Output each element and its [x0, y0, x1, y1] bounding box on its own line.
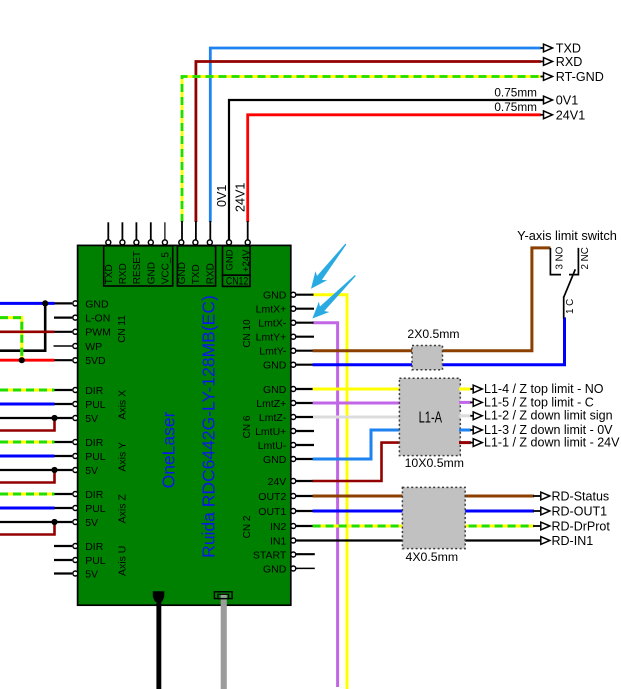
pin left PUL 13 — [73, 506, 78, 511]
pin right OUT2 14 — [291, 494, 296, 499]
pin left DIR 15 — [73, 544, 78, 549]
svg-text:0.75mm: 0.75mm — [494, 100, 537, 114]
node RXD arrow — [544, 58, 553, 66]
cable main black — [156, 598, 161, 689]
svg-text:CN 11: CN 11 — [117, 315, 128, 343]
wire DIR Z dashed green overlay — [0, 493, 55, 496]
wire L1-1 arrow lead — [470, 442, 473, 444]
pin left DIR 6 — [73, 388, 78, 393]
wire LmtY- stub — [297, 350, 314, 352]
wire OUT1 blue to RD-OUT1 — [313, 510, 534, 513]
pin left L-ON 2 — [73, 315, 78, 320]
wire stub top pin 1 — [107, 222, 109, 240]
node RD-DrProt arrow — [541, 522, 550, 530]
svg-text:LmtY-: LmtY- — [259, 346, 287, 358]
node 5V X junction — [51, 415, 57, 421]
wire net LmtX-GND yellow vertical to bottom — [313, 295, 347, 689]
pin top 8 — [207, 240, 212, 245]
svg-text:DIR: DIR — [85, 489, 104, 501]
pin right LmtZ+ 8 — [291, 401, 296, 406]
pin left 5V 11 — [73, 468, 78, 473]
svg-text:0.75mm: 0.75mm — [494, 85, 537, 99]
wire PUL Z black stub — [55, 507, 73, 509]
svg-text:24V: 24V — [268, 476, 287, 488]
wire 5V U stub — [54, 572, 72, 574]
svg-text:TXD: TXD — [191, 264, 202, 284]
svg-text:LmtZ-: LmtZ- — [259, 412, 287, 424]
wire IN2 arrow lead — [533, 525, 542, 527]
svg-text:START: START — [253, 549, 287, 561]
wire 5V Y dark red branch — [0, 470, 55, 483]
IC U1 Ruida controller board body — [78, 245, 291, 605]
svg-text:Axis Y: Axis Y — [116, 442, 128, 472]
svg-text:PUL: PUL — [85, 503, 106, 515]
wire DIR Y dashed yellow base — [0, 441, 55, 444]
wire PUL U stub — [54, 559, 72, 561]
switch SW1 lever — [564, 269, 576, 297]
svg-text:2 NC: 2 NC — [580, 247, 591, 269]
node L1-4 arrow — [473, 385, 482, 393]
node TXD arrow — [544, 44, 553, 52]
wire GND CN6 yellow to L1-A — [313, 388, 402, 391]
pin left 5V 8 — [73, 416, 78, 421]
wire GND CN10 stub — [297, 294, 314, 296]
wire net LmtX- violet vertical to bottom — [313, 323, 338, 687]
wire GND blue — [0, 302, 55, 305]
wire GND black branch — [0, 303, 45, 350]
wire RT-GND black stub — [181, 221, 183, 240]
wire OUT2 stub — [297, 495, 314, 497]
wire DIR Y black stub — [55, 441, 73, 443]
wire DIR X dashed green overlay — [0, 389, 55, 392]
wire IN1 stub black to RD-IN1 — [297, 539, 542, 541]
connector grey inner — [218, 594, 229, 598]
svg-text:GND: GND — [263, 563, 287, 575]
wire PWM dark red — [0, 330, 55, 333]
svg-text:LmtU-: LmtU- — [258, 440, 287, 452]
node 5VD junction — [19, 357, 25, 363]
wire L1-4 colored — [459, 388, 471, 391]
wire LmtZ+ stub — [297, 402, 314, 404]
callout arrow 1 shaft — [316, 244, 346, 282]
wire 5V X dark red branch — [0, 418, 55, 431]
pin top 3 — [134, 240, 139, 245]
node RD-OUT1 arrow — [541, 507, 550, 515]
wire L-ON black stub — [54, 317, 72, 319]
wire 5V X black — [0, 417, 72, 419]
svg-text:DIR: DIR — [85, 385, 104, 397]
wire L1-4 arrow lead — [470, 388, 473, 390]
svg-text:5V: 5V — [85, 568, 98, 580]
wire L1-1 colored — [459, 441, 471, 444]
wire OUT1 arrow lead — [533, 510, 542, 512]
wire L-ON dashed yellow base — [0, 318, 22, 361]
wire stub top pin 3 — [135, 222, 137, 240]
wire DIR X black stub — [55, 389, 73, 391]
svg-text:24V1: 24V1 — [556, 108, 585, 122]
svg-text:RD-OUT1: RD-OUT1 — [552, 505, 608, 519]
pin left PUL 10 — [73, 454, 78, 459]
svg-text:LmtU+: LmtU+ — [255, 426, 286, 438]
switch SW1 NC contact — [569, 248, 578, 275]
svg-text:0V1: 0V1 — [215, 185, 229, 207]
cable block L1-A — [399, 378, 460, 455]
svg-text:2X0.5mm: 2X0.5mm — [407, 327, 459, 341]
pin left WP 4 — [73, 344, 78, 349]
wire stub top pin 4 — [150, 222, 152, 240]
svg-text:TXD: TXD — [104, 264, 115, 284]
svg-text:PUL: PUL — [85, 399, 106, 411]
svg-text:LmtY+: LmtY+ — [256, 332, 287, 344]
svg-text:IN2: IN2 — [270, 521, 287, 533]
wire LmtY+ stub — [297, 336, 315, 338]
pin left DIR 12 — [73, 492, 78, 497]
pin top 5 — [162, 240, 167, 245]
wire RXD (dark red) — [196, 62, 541, 223]
pin left DIR 9 — [73, 440, 78, 445]
pin right IN2 16 — [291, 524, 296, 529]
svg-text:LmtX-: LmtX- — [258, 318, 287, 330]
node RD-IN1 arrow — [541, 537, 550, 545]
pin right GND 1 — [291, 292, 296, 297]
pin top 4 — [148, 240, 153, 245]
pin left 5V 17 — [73, 571, 78, 576]
svg-text:GND: GND — [263, 454, 287, 466]
svg-text:+24V: +24V — [241, 249, 252, 272]
wire TXD (azure) — [210, 48, 541, 222]
pin top 7 — [193, 240, 198, 245]
svg-text:Axis X: Axis X — [116, 390, 128, 420]
wire PUL Y blue — [0, 455, 55, 458]
node 0V1 arrow — [544, 96, 553, 104]
wire L1-3 colored — [459, 429, 471, 432]
wire 24V1 arrow lead — [541, 114, 545, 116]
svg-text:GND: GND — [177, 262, 188, 284]
pin right LmtU+ 10 — [291, 429, 296, 434]
wire TXD arrow lead — [541, 47, 545, 49]
wire L1-2 colored — [459, 414, 471, 417]
wire LmtY- brown to Y switch NO — [313, 248, 551, 351]
svg-text:3 NO: 3 NO — [554, 246, 565, 269]
wire 5V Y black — [0, 469, 72, 471]
wire PUL X blue — [0, 403, 55, 406]
pin right GND 12 — [291, 457, 296, 462]
pin top 1 — [106, 240, 111, 245]
wire L1-2 arrow lead — [470, 415, 473, 417]
cable block 2X0.5mm — [412, 346, 443, 370]
wire IN2 yellow base — [313, 525, 534, 528]
svg-text:DIR: DIR — [85, 541, 104, 553]
svg-text:LmtZ+: LmtZ+ — [256, 398, 286, 410]
wire PWM black stub — [55, 331, 73, 333]
wire WP stub — [54, 345, 73, 347]
svg-text:4X0.5mm: 4X0.5mm — [405, 550, 458, 564]
wire PUL X black stub — [55, 403, 73, 405]
svg-text:GND: GND — [263, 384, 287, 396]
pin left 5V 14 — [73, 520, 78, 525]
node 5V Y junction — [51, 467, 57, 473]
svg-text:PUL: PUL — [85, 555, 106, 567]
wire RT-GND arrow lead — [541, 76, 545, 78]
svg-text:PWM: PWM — [85, 327, 111, 339]
pin right LmtZ- 9 — [291, 415, 296, 420]
wire RT-GND green dashes — [182, 77, 541, 223]
svg-text:RD-Status: RD-Status — [552, 490, 610, 504]
wire DIR Z black stub — [55, 493, 73, 495]
svg-text:L1-5 / Z top limit - C: L1-5 / Z top limit - C — [484, 395, 594, 409]
wire stub top pin 2 — [121, 222, 123, 240]
pin right START 18 — [291, 552, 296, 557]
wire LmtU- stub — [297, 444, 315, 446]
svg-text:10X0.5mm: 10X0.5mm — [405, 456, 464, 470]
wire RXD arrow lead — [541, 61, 545, 63]
wire GND black stub — [55, 302, 73, 304]
wire IN2 stub — [297, 525, 314, 527]
wire GND CN6b stub — [297, 458, 314, 460]
pin top 9 — [227, 240, 232, 245]
connector box serial — [177, 246, 215, 286]
svg-text:WP: WP — [85, 341, 102, 353]
svg-text:RD-IN1: RD-IN1 — [552, 534, 594, 548]
pin right GND 19 — [291, 566, 296, 571]
wire GND CN10b stub — [297, 364, 314, 366]
svg-text:CN 2: CN 2 — [242, 515, 253, 538]
wire LmtZ+ violet to L1-A — [313, 402, 402, 405]
wire LmtZ- stub — [297, 416, 315, 418]
node L1-5 arrow — [473, 399, 482, 407]
pin right LmtU- 11 — [291, 443, 296, 448]
svg-text:RXD: RXD — [118, 263, 129, 284]
pin right GND 7 — [291, 387, 296, 392]
svg-text:GND: GND — [146, 262, 157, 284]
svg-text:L-ON: L-ON — [85, 313, 110, 325]
svg-text:0V1: 0V1 — [556, 94, 578, 108]
wire OUT2 brown to RD-Status — [313, 495, 534, 498]
svg-text:RXD: RXD — [205, 263, 216, 284]
svg-text:24V1: 24V1 — [233, 183, 247, 212]
wire 24V dark red from L1-A — [313, 443, 400, 481]
pin left 5VD 5 — [73, 358, 78, 363]
wire 24V stub — [297, 480, 314, 482]
wire DIR X dashed yellow base — [0, 389, 55, 392]
wire GND CN6 stub — [297, 388, 314, 390]
pin left PUL 16 — [73, 558, 78, 563]
wire L-ON dashed green overlay — [0, 318, 22, 361]
pin right GND 6 — [291, 362, 296, 367]
pin right OUT1 15 — [291, 509, 296, 514]
wire 5V Z dark red branch — [0, 522, 55, 535]
wire PUL Z blue — [0, 507, 55, 510]
wire GND CN2 stub — [296, 567, 315, 569]
svg-text:L1-2 / Z down limit sign: L1-2 / Z down limit sign — [484, 409, 613, 423]
wire PUL Y black stub — [55, 455, 73, 457]
svg-text:CN12: CN12 — [226, 275, 248, 287]
wire LmtZ- grey to L1-A — [313, 416, 402, 419]
wire 5V Z black — [0, 521, 72, 523]
pin top 10 — [245, 240, 250, 245]
svg-text:Axis U: Axis U — [116, 546, 128, 576]
svg-text:LmtX+: LmtX+ — [256, 304, 287, 316]
wire LmtX+ stub — [297, 308, 315, 310]
pin top 2 — [120, 240, 125, 245]
svg-text:Y-axis limit switch: Y-axis limit switch — [517, 228, 617, 243]
pin right LmtY- 5 — [291, 348, 296, 353]
wire LmtU+ stub — [297, 430, 315, 432]
wire RT-GND yellow base — [182, 77, 541, 223]
connector grey outer — [214, 592, 232, 599]
connector CN12 label box — [223, 275, 251, 286]
svg-text:GND: GND — [224, 249, 235, 270]
wire OUT2 arrow lead — [533, 495, 542, 497]
wire 5VD red — [0, 359, 55, 362]
svg-text:5VD: 5VD — [85, 355, 106, 367]
svg-text:CN 10: CN 10 — [242, 319, 253, 348]
svg-text:RT-GND: RT-GND — [556, 70, 604, 84]
svg-text:GND: GND — [263, 290, 287, 302]
wire START stub — [296, 553, 315, 555]
callout arrow 2 head — [313, 303, 328, 318]
wire RXD black stub — [195, 221, 197, 240]
svg-text:DIR: DIR — [85, 437, 104, 449]
pin left GND 1 — [73, 301, 78, 306]
svg-text:GND: GND — [85, 298, 109, 310]
switch SW1 common terminal — [563, 297, 565, 319]
cable block 4X0.5mm — [402, 487, 465, 548]
wire DIR Z dashed yellow base — [0, 493, 55, 496]
switch SW1 NO contact — [550, 248, 561, 275]
wire L1-5 arrow lead — [470, 401, 473, 403]
wire TXD black stub — [209, 221, 211, 240]
svg-text:PUL: PUL — [85, 451, 106, 463]
svg-text:5V: 5V — [85, 413, 98, 425]
wire OUT1 stub — [297, 510, 314, 512]
pin right LmtX- 3 — [291, 320, 296, 325]
node 24V1 arrow — [544, 111, 553, 119]
wire L1-5 colored — [459, 401, 471, 404]
svg-text:Ruida RDC6442G-LY-128MB(EC): Ruida RDC6442G-LY-128MB(EC) — [198, 295, 218, 558]
node L1-3 arrow — [473, 426, 482, 434]
svg-text:L1-1 / Z down limit - 24V: L1-1 / Z down limit - 24V — [484, 436, 620, 450]
svg-text:OUT1: OUT1 — [258, 506, 286, 518]
wire GND azure to L1-A — [313, 430, 402, 459]
node L1-2 arrow — [473, 412, 482, 420]
connector CN12 box — [223, 246, 251, 275]
svg-text:5V: 5V — [85, 517, 98, 529]
wire stub top pin VCC_5 — [164, 222, 166, 240]
node RD-Status arrow — [541, 492, 550, 500]
pin right IN1 17 — [291, 538, 296, 543]
connector box CN5 — [104, 246, 173, 286]
svg-text:1 C: 1 C — [565, 299, 576, 314]
callout arrow 1 head — [312, 273, 326, 288]
wire 24V1 (red) — [248, 115, 541, 222]
callout arrow 2 shaft — [318, 276, 355, 313]
svg-text:L1-4 / Z top limit - NO: L1-4 / Z top limit - NO — [484, 382, 604, 396]
node L1-1 arrow — [473, 439, 482, 447]
svg-text:5V: 5V — [85, 465, 98, 477]
wire DIR Y dashed green overlay — [0, 441, 55, 444]
svg-text:RESET: RESET — [132, 251, 143, 284]
svg-text:OUT2: OUT2 — [258, 491, 286, 503]
cable grey — [221, 594, 227, 689]
svg-text:Axis Z: Axis Z — [116, 494, 128, 524]
svg-text:GND: GND — [263, 360, 287, 372]
pin left PWM 3 — [73, 329, 78, 334]
connector plug black — [153, 591, 165, 601]
wire L1-3 arrow lead — [470, 429, 473, 431]
svg-text:VCC_5: VCC_5 — [161, 252, 172, 285]
svg-text:TXD: TXD — [556, 42, 581, 56]
svg-text:OneLaser: OneLaser — [158, 411, 178, 488]
wire 0V1 (black) — [229, 100, 544, 240]
wire IN2 green dashes — [313, 525, 534, 528]
svg-text:CN 6: CN 6 — [242, 415, 253, 438]
pin top 6 — [179, 240, 184, 245]
wire GND blue to Y switch C — [313, 317, 565, 364]
node RT-GND arrow — [544, 73, 553, 81]
pin right LmtX+ 2 — [291, 306, 296, 311]
svg-text:L1-A: L1-A — [419, 410, 443, 427]
svg-text:RXD: RXD — [556, 55, 583, 69]
pin right 24V 13 — [291, 479, 296, 484]
node 5V Z junction — [51, 519, 57, 525]
wire DIR U stub — [54, 545, 72, 547]
svg-text:RD-DrProt: RD-DrProt — [552, 520, 611, 534]
pin right LmtY+ 4 — [291, 334, 296, 339]
wire 5VD black stub — [55, 359, 73, 361]
wire LmtX- stub — [297, 322, 314, 324]
pin left PUL 7 — [73, 402, 78, 407]
node GND junction — [42, 300, 48, 306]
wire 24V1 black stub — [247, 221, 249, 240]
svg-text:IN1: IN1 — [270, 535, 287, 547]
